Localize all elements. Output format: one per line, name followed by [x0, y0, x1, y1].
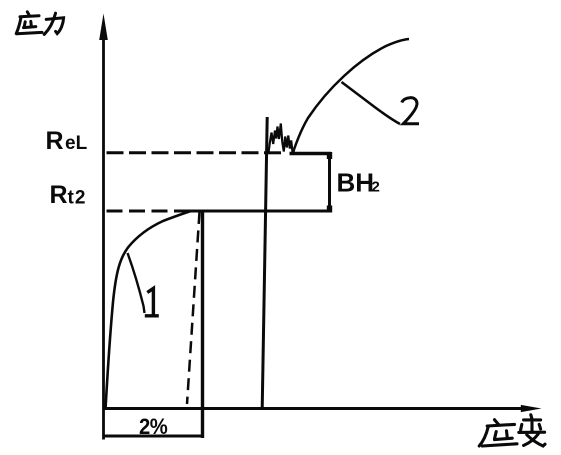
svg-text:BH: BH: [337, 168, 375, 198]
svg-text:t2: t2: [68, 188, 87, 209]
svg-text:eL: eL: [65, 133, 88, 154]
svg-text:R: R: [50, 181, 68, 209]
svg-text:2: 2: [372, 179, 380, 196]
svg-text:R: R: [46, 127, 64, 155]
svg-text:2%: 2%: [139, 414, 168, 439]
